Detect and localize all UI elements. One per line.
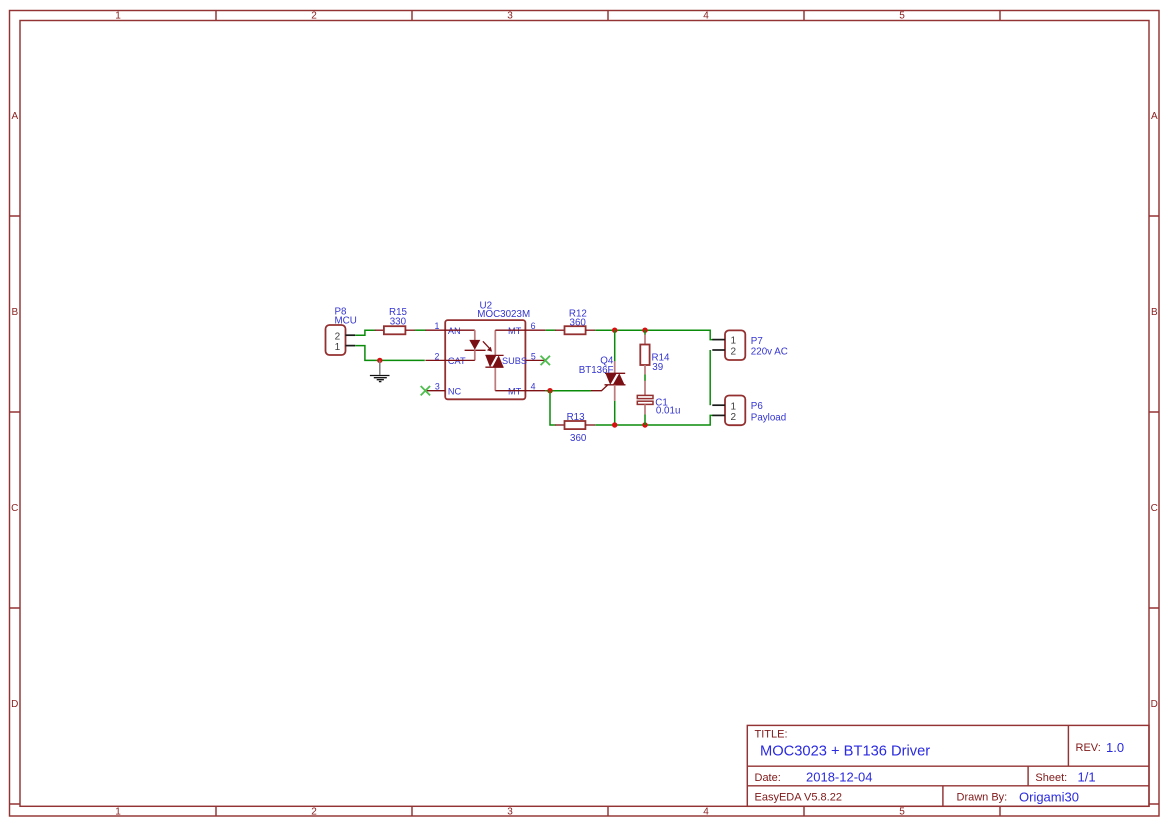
svg-text:3: 3 [507,11,513,22]
junction gate node [547,388,552,393]
connector P8 [326,306,357,355]
svg-text:1: 1 [115,807,121,818]
junction at ground node [377,358,382,363]
U2 internal triac [485,354,503,356]
wire P8.2 to R15 [355,330,375,335]
svg-text:4: 4 [703,807,709,818]
svg-text:1.0: 1.0 [1106,740,1124,755]
U2 pin 3 (NC) [425,390,445,392]
svg-text:AN: AN [448,326,461,336]
svg-text:2: 2 [311,807,317,818]
P7 pin 2 stub [712,349,725,351]
svg-text:Drawn By:: Drawn By: [957,792,1008,804]
svg-text:2: 2 [435,351,440,361]
svg-text:6: 6 [531,321,536,331]
triac Q4 [579,355,626,401]
wire top net down to Q4 MT2 [614,330,616,361]
svg-text:P6: P6 [751,401,764,412]
svg-text:Sheet:: Sheet: [1035,772,1067,784]
svg-text:4: 4 [531,382,536,392]
svg-text:2018-12-04: 2018-12-04 [806,769,873,784]
svg-text:1: 1 [435,321,440,331]
junction bottom net / C1 [642,422,647,427]
wire U2 pin 4 to gate node [545,390,591,392]
svg-text:2: 2 [731,412,737,423]
P6 pin 1 stub [712,404,725,406]
P8 pin 2 stub [346,334,356,336]
svg-text:3: 3 [507,807,513,818]
svg-text:SUBS: SUBS [502,356,527,366]
no-connect X on pin 5 [541,356,550,365]
wire P7.2 to P6.1 [709,350,711,405]
capacitor C1 [637,381,680,417]
svg-text:D: D [11,699,18,710]
connector P7 [712,330,788,360]
wire Q4 MT1 to bottom net [614,401,616,425]
svg-text:MOC3023M: MOC3023M [477,309,530,320]
svg-text:1: 1 [335,342,341,353]
ground [370,360,390,381]
P8 pin 1 stub [346,345,356,347]
svg-text:B: B [11,307,18,318]
svg-text:REV:: REV: [1076,742,1101,754]
op-coupler U2 [421,301,550,400]
resistor R12 [555,309,595,335]
svg-text:MT: MT [508,326,522,336]
svg-text:3: 3 [435,382,440,392]
svg-text:5: 5 [899,807,905,818]
svg-text:Date:: Date: [755,772,781,784]
U2 internal LED anode line [445,329,475,331]
wire R15 to U2 pin 1 [415,329,426,331]
Q4 gate lead [591,385,608,391]
svg-text:Origami30: Origami30 [1019,789,1079,804]
wire gate node down to R13 [550,391,555,425]
wire top net down to R14 [644,330,646,335]
svg-text:NC: NC [448,386,462,396]
title block [747,725,1149,806]
wire bottom net to P6 [595,415,712,425]
svg-text:360: 360 [570,433,587,444]
svg-text:5: 5 [899,11,905,22]
P6 pin 2 stub [712,414,725,416]
svg-text:2: 2 [335,331,341,342]
svg-text:5: 5 [531,351,536,361]
junction top net / triac [612,328,617,333]
svg-text:220v AC: 220v AC [751,347,788,358]
svg-text:MT: MT [508,386,522,396]
U2 pin 5 (SUBS) [525,359,545,361]
svg-text:C: C [11,503,18,514]
svg-text:C: C [1151,503,1158,514]
svg-text:MOC3023 + BT136 Driver: MOC3023 + BT136 Driver [760,744,930,760]
wire P8.1 to CAT net [355,346,425,361]
U2 pin 6 (MT) [525,329,545,331]
resistor R13 [555,412,595,444]
svg-text:B: B [1151,307,1158,318]
svg-text:1/1: 1/1 [1078,769,1096,784]
svg-text:0.01u: 0.01u [656,406,681,417]
svg-text:2: 2 [731,346,737,357]
svg-text:D: D [1151,699,1158,710]
svg-text:4: 4 [703,11,709,22]
svg-text:39: 39 [652,362,663,373]
svg-text:BT136F: BT136F [579,365,614,376]
U2 internal cathode line [445,359,475,361]
svg-text:A: A [11,111,18,122]
resistor R15 [375,307,415,334]
wire top net to P7 [595,330,712,339]
U2 emission arrow [483,341,490,348]
svg-text:360: 360 [570,318,587,329]
U2 pin 2 (CAT) [425,359,445,361]
U2 internal triac vertical [494,330,496,355]
U2 internal LED [469,340,480,350]
svg-text:A: A [1151,111,1158,122]
no-connect X on pin 3 [421,386,430,395]
junction top net / R14 [642,328,647,333]
svg-text:1: 1 [115,11,121,22]
wire U2 pin 6 to R12 [545,329,555,331]
svg-text:330: 330 [390,316,407,327]
U2 pin 1 (AN) [425,329,445,331]
svg-text:EasyEDA V5.8.22: EasyEDA V5.8.22 [755,792,842,804]
U2 pin 4 (MT) [525,390,545,392]
svg-text:P7: P7 [751,336,763,347]
svg-text:1: 1 [731,336,737,347]
wire R14 to C1 [644,375,646,382]
svg-text:CAT: CAT [448,356,466,366]
junction bottom net / Q4 [612,422,617,427]
connector P6 [712,396,786,426]
svg-text:TITLE:: TITLE: [755,728,788,740]
svg-text:MCU: MCU [335,316,357,327]
resistor R14 [640,335,670,375]
svg-text:1: 1 [731,401,737,412]
svg-text:2: 2 [311,11,317,22]
svg-text:Payload: Payload [751,412,786,423]
svg-text:R13: R13 [567,412,586,423]
P7 pin 1 stub [712,339,725,341]
wire C1 to bottom net [644,415,646,426]
